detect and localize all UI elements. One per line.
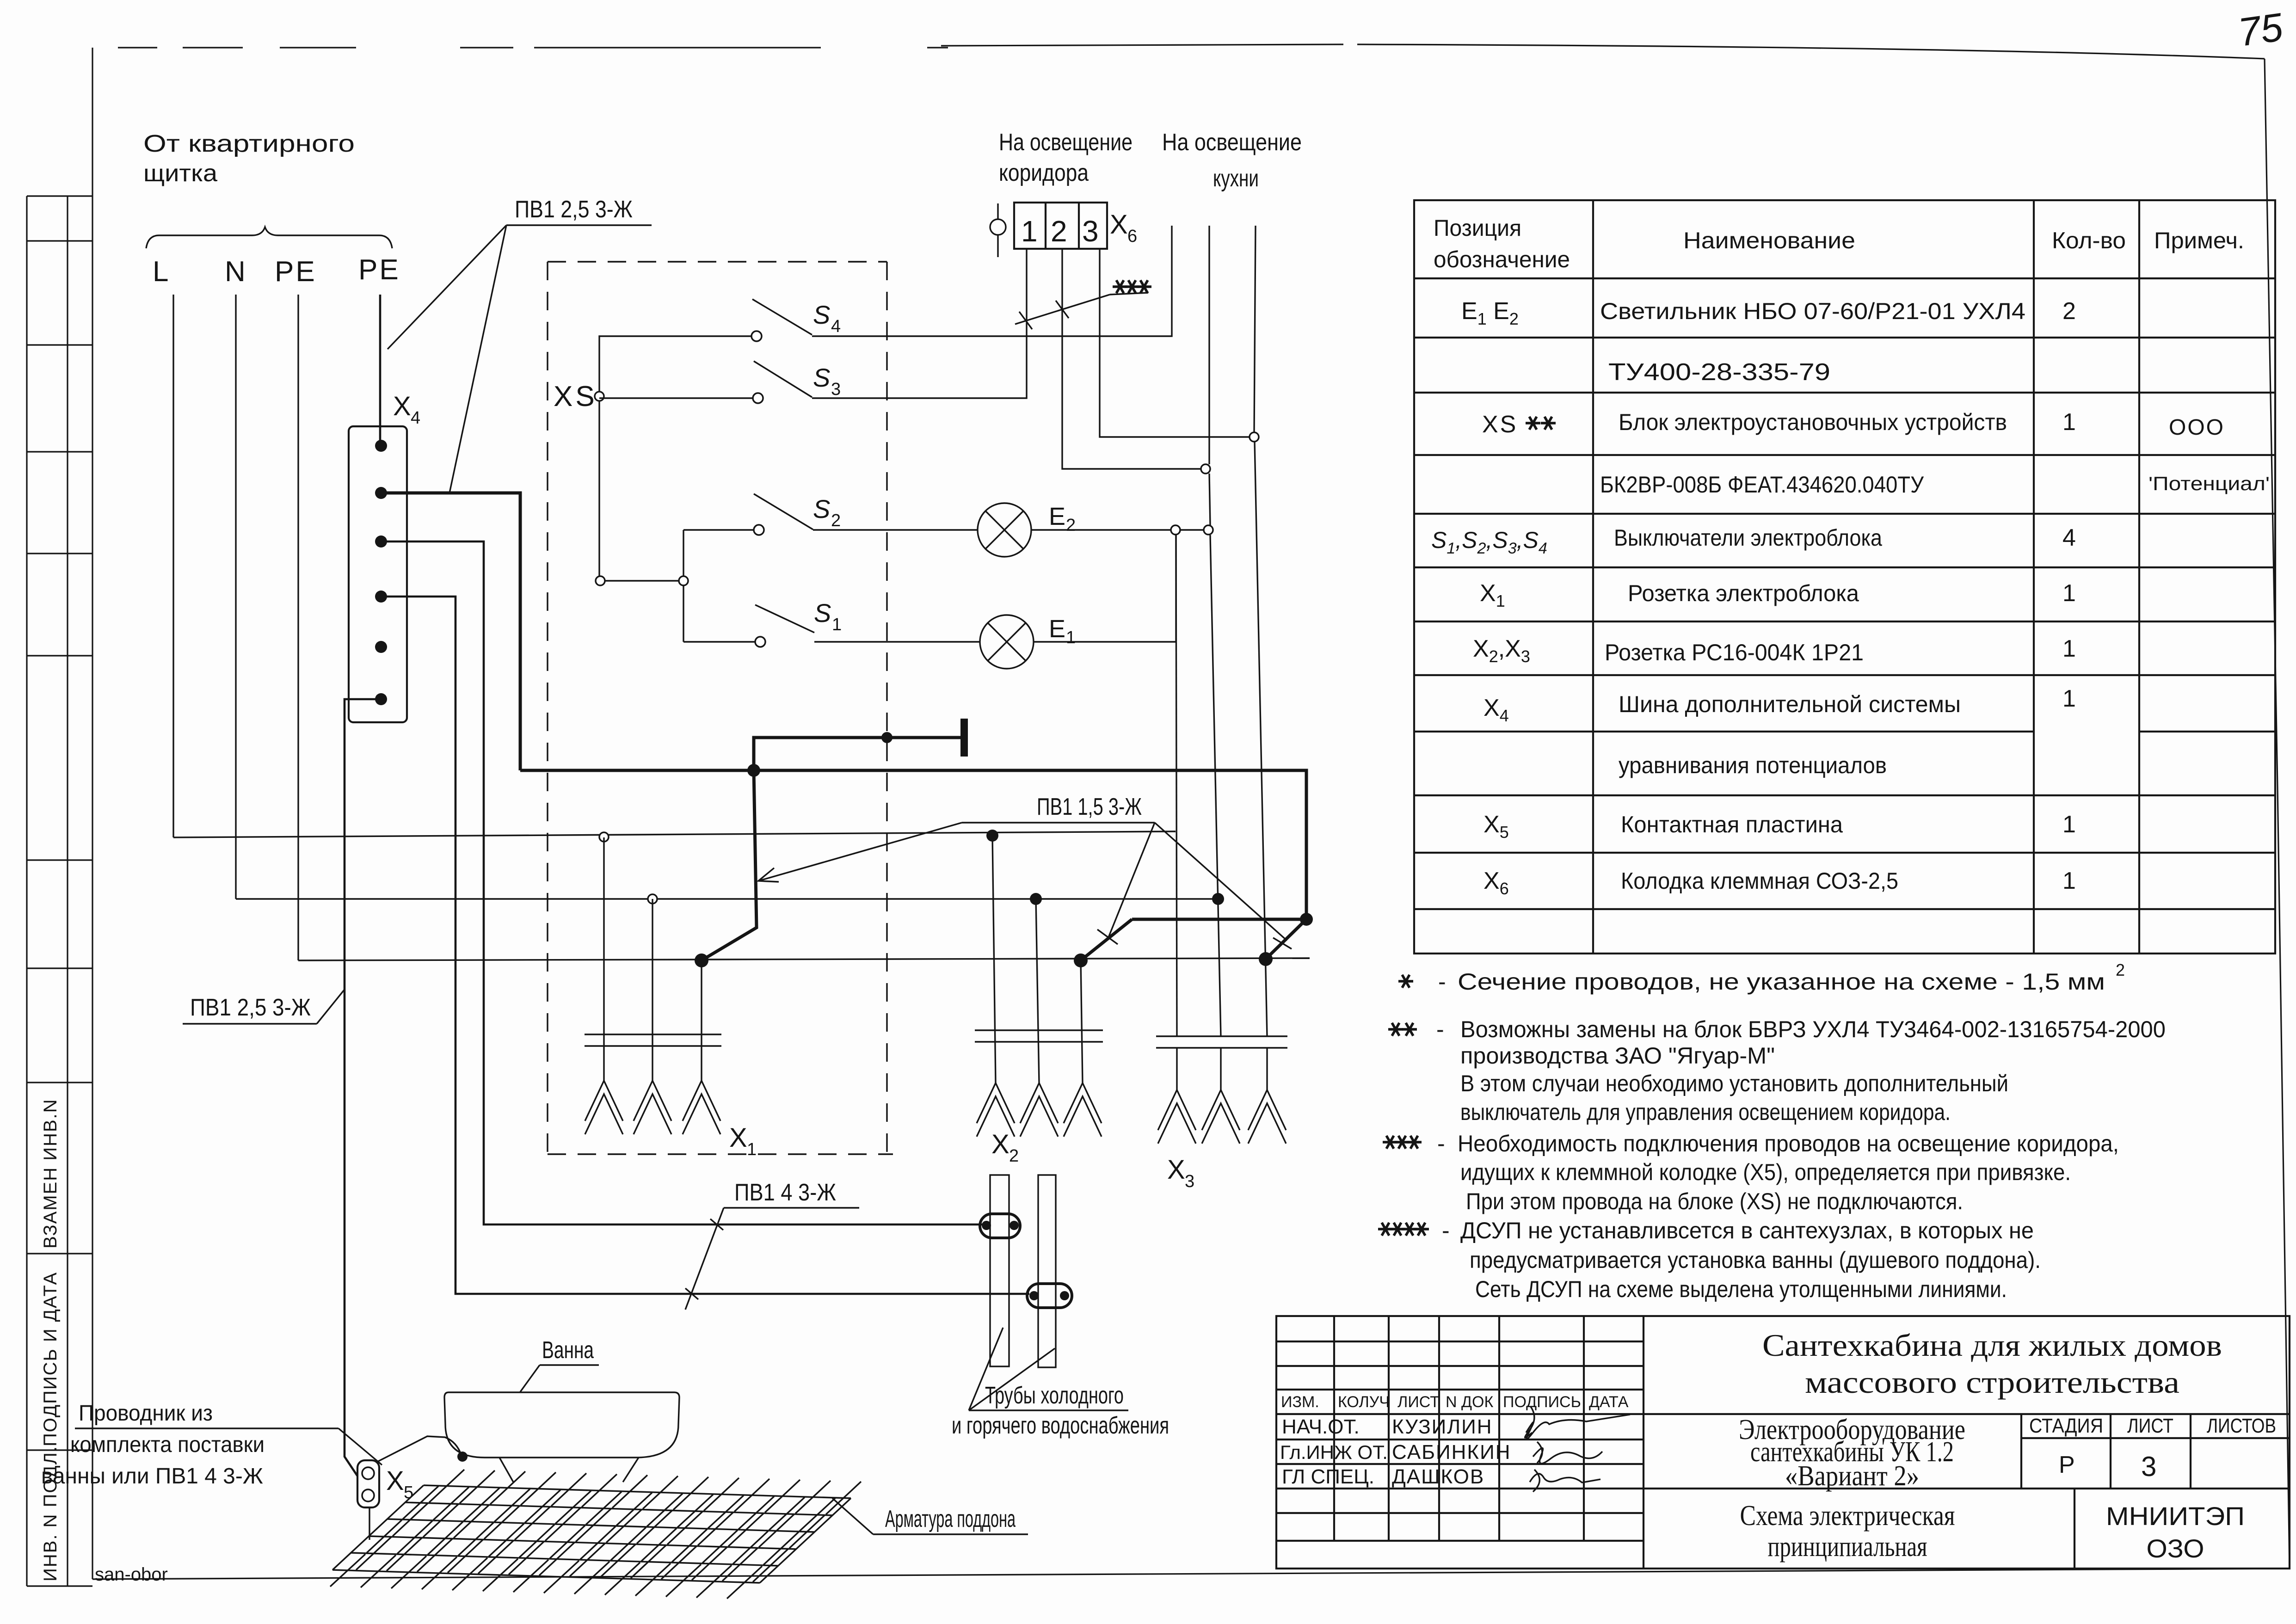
svg-text:Розетка РС16-004К 1Р21: Розетка РС16-004К 1Р21 — [1605, 640, 1864, 665]
note *** необходимость подключения — [1383, 1136, 1397, 1149]
connection circle E-line / X3 riser — [1171, 525, 1180, 535]
svg-text:N: N — [225, 256, 246, 288]
wire E2 output to neutral riser — [1031, 529, 1212, 530]
potential equalization bar — [960, 719, 968, 757]
svg-text:Сеть ДСУП на схеме выделен: Сеть ДСУП на схеме выделена утолщенными … — [1475, 1276, 2007, 1302]
svg-text:1: 1 — [2062, 685, 2076, 712]
svg-text:Р: Р — [2059, 1452, 2075, 1478]
wire PE horizontal — [298, 958, 1310, 960]
leader to X4 dot2 wire — [449, 225, 506, 493]
svg-text:КУЗИЛИН: КУЗИЛИН — [1392, 1415, 1493, 1438]
svg-text:2: 2 — [1009, 1146, 1019, 1166]
block XS dashed outline — [548, 262, 893, 1154]
drawing frame: top border (dashed scan segments) — [118, 44, 2265, 59]
svg-text:ИЗМ.: ИЗМ. — [1281, 1393, 1319, 1411]
svg-text:L: L — [153, 256, 168, 288]
junction dot L / X2-1 — [986, 830, 998, 842]
svg-text:Е: Е — [1049, 615, 1065, 643]
svg-text:кухни: кухни — [1213, 165, 1259, 192]
svg-text:Колодка клеммная СОЗ-2,5: Колодка клеммная СОЗ-2,5 — [1621, 868, 1898, 894]
svg-text:ВЗАМЕН ИНВ.N: ВЗАМЕН ИНВ.N — [40, 1098, 61, 1249]
junction dot PE / X2-3 — [1074, 953, 1088, 967]
socket X2 body bars — [975, 1030, 1103, 1042]
svg-text:Примеч.: Примеч. — [2154, 228, 2244, 253]
svg-text:1: 1 — [2062, 635, 2076, 662]
leader to pipe 2 — [969, 1348, 1055, 1410]
svg-text:На освещение: На освещение — [999, 129, 1133, 156]
lamp E1 — [980, 615, 1034, 669]
svg-text:идущих к клеммной колодке: идущих к клеммной колодке (Х5), определя… — [1460, 1159, 2071, 1185]
svg-text:ДАТА: ДАТА — [1589, 1393, 1629, 1411]
socket X1 riser 2 — [652, 899, 653, 1081]
switch S1 contact — [755, 637, 765, 647]
terminal block X6 — [1014, 203, 1107, 249]
svg-text:1: 1 — [832, 615, 842, 634]
svg-text:3: 3 — [1082, 215, 1099, 248]
clamp on pipe 1 — [980, 1214, 1020, 1238]
svg-text:-: - — [1437, 1131, 1445, 1156]
junction dot N / kitchen riser — [1212, 893, 1224, 905]
svg-text:S: S — [813, 300, 830, 329]
svg-text:«Вариант 2»: «Вариант 2» — [1785, 1460, 1919, 1492]
svg-text:щитка: щитка — [143, 160, 217, 187]
svg-text:X: X — [386, 1466, 404, 1496]
svg-text:Проводник из: Проводник из — [79, 1401, 213, 1426]
svg-text:-: - — [1442, 1218, 1450, 1243]
svg-text:ЛИСТ: ЛИСТ — [1397, 1393, 1440, 1411]
underline of top ПВ1 label — [506, 224, 652, 226]
socket X1 body bars — [585, 1034, 721, 1046]
svg-text:Позиция: Позиция — [1434, 215, 1521, 241]
wire PE (ПВ1 2,5 3-Ж) vertical to X4 — [379, 295, 382, 446]
switch S4 contact — [751, 331, 762, 341]
socket X1 prong 1 — [585, 1081, 623, 1134]
wire E1 output up to E2 line — [1034, 535, 1176, 642]
svg-text:Гл.ИНЖ ОТ.: Гл.ИНЖ ОТ. — [1280, 1441, 1388, 1463]
svg-text:ЛИСТОВ: ЛИСТОВ — [2207, 1415, 2276, 1437]
underline of Проводник label — [75, 1427, 339, 1429]
DSUP drop to X1 area — [702, 770, 757, 960]
svg-text:уравнивания потенциалов: уравнивания потенциалов — [1619, 752, 1887, 778]
signatures (squiggles) — [1525, 1407, 1630, 1492]
svg-text:1: 1 — [1066, 628, 1076, 647]
svg-text:ГЛ СПЕЦ.: ГЛ СПЕЦ. — [1282, 1465, 1374, 1488]
svg-text:Сечение проводов, не указан: Сечение проводов, не указанное на схеме … — [1458, 969, 2105, 995]
svg-text:X: X — [991, 1129, 1010, 1159]
svg-text:ПОДПИСЬ И ДАТА: ПОДПИСЬ И ДАТА — [40, 1272, 61, 1446]
X5 tail to grid — [369, 1507, 370, 1540]
svg-text:3: 3 — [831, 380, 841, 399]
drawing frame: right border — [2265, 59, 2290, 1569]
svg-text:X: X — [1167, 1155, 1185, 1185]
X4 terminal dot 1 — [375, 440, 387, 452]
socket X3 prong 1 — [1158, 1090, 1196, 1144]
svg-text:ПВ1 1,5 3-Ж: ПВ1 1,5 3-Ж — [1037, 794, 1142, 820]
bonding conductor X5 to bath — [378, 1436, 462, 1461]
svg-text:коридора: коридора — [999, 160, 1089, 186]
svg-text:-: - — [1438, 969, 1446, 995]
svg-text:2: 2 — [831, 511, 841, 530]
underline of ПБ1 4 label — [724, 1207, 859, 1208]
kitchen riser A (neutral) — [1208, 226, 1210, 464]
rail branch circle — [679, 576, 688, 585]
svg-text:2: 2 — [1066, 516, 1076, 535]
svg-text:2: 2 — [2062, 298, 2076, 325]
junction dot DSUP — [747, 764, 760, 777]
svg-text:НАЧ.ОТ.: НАЧ.ОТ. — [1282, 1415, 1360, 1438]
svg-text:1: 1 — [747, 1140, 757, 1159]
leader to DSUP diagonal left — [1097, 823, 1155, 944]
socket X3 body bars — [1156, 1036, 1287, 1048]
svg-text:Трубы холодного: Трубы холодного — [985, 1382, 1124, 1409]
svg-text:X: X — [1110, 209, 1128, 240]
underline of Трубы label — [969, 1409, 1128, 1411]
floor grid (Арматура поддона) — [330, 1470, 861, 1599]
corridor lamp symbol — [990, 203, 1006, 257]
svg-text:Схема электрическая: Схема электрическая — [1740, 1500, 1955, 1532]
svg-text:Розетка электроблока: Розетка электроблока — [1628, 580, 1859, 606]
svg-text:75: 75 — [2235, 5, 2286, 55]
junction dot N / X2-2 — [1030, 893, 1042, 905]
parts table — [1414, 200, 2275, 953]
svg-text:X: X — [393, 391, 411, 421]
svg-text:ЛИСТ: ЛИСТ — [2127, 1415, 2173, 1437]
svg-text:ПОДПИСЬ: ПОДПИСЬ — [1503, 1393, 1581, 1411]
bathtub right leg — [623, 1458, 639, 1482]
socket X1 prong 3 — [683, 1081, 720, 1134]
note * сечение проводов — [1398, 975, 1413, 988]
leader to PE wire — [388, 225, 506, 349]
bathtub left leg — [499, 1458, 513, 1482]
leader to bonding wire — [339, 1428, 382, 1465]
svg-text:3: 3 — [1185, 1172, 1194, 1191]
underline of Ванна label — [540, 1364, 599, 1366]
svg-text:1: 1 — [1021, 215, 1038, 248]
clamp on pipe 2 — [1027, 1284, 1072, 1308]
svg-text:PE: PE — [275, 256, 317, 288]
wire rail to S3 — [599, 397, 758, 399]
bathtub Ванна — [444, 1392, 679, 1458]
svg-text:предусматривается установка: предусматривается установка ванны (душев… — [1470, 1247, 2041, 1273]
connection circle E-line / neutral riser — [1204, 525, 1213, 535]
wire L horizontal — [173, 831, 1176, 837]
svg-text:Необходимость подключения пр: Необходимость подключения проводов на ос… — [1458, 1131, 2119, 1156]
junction dot PE / DSUP / X1-3 — [695, 953, 708, 967]
asterisks *** — [1113, 280, 1127, 293]
svg-text:ООО: ООО — [2169, 415, 2225, 440]
svg-text:Контактная пластина: Контактная пластина — [1621, 812, 1843, 837]
socket X2 prong 2 — [1020, 1083, 1058, 1137]
kitchen riser B — [1254, 226, 1256, 432]
svg-text:ТУ400-28-335-79: ТУ400-28-335-79 — [1608, 359, 1830, 386]
svg-text:Кол-во: Кол-во — [2052, 228, 2126, 253]
underline of lower ПВ1 label — [183, 1023, 317, 1024]
socket X3 prong 2 — [1202, 1090, 1240, 1144]
svg-text:Шина дополнительной системы: Шина дополнительной системы — [1619, 691, 1961, 717]
svg-text:Арматура поддона: Арматура поддона — [885, 1506, 1016, 1532]
connection circle X6-3 — [1250, 432, 1259, 442]
leader to DSUP diagonal right — [1155, 823, 1292, 949]
junction dot DSUP right — [1300, 913, 1313, 926]
svg-text:-: - — [1436, 1016, 1444, 1042]
switch S2 blade — [754, 494, 813, 529]
svg-text:производства ЗАО "Ягуар-М": производства ЗАО "Ягуар-М" — [1460, 1043, 1775, 1069]
wire X6-2 down to neutral riser — [1062, 249, 1204, 469]
switch S4 blade — [752, 299, 812, 335]
svg-text:ДАШКОВ: ДАШКОВ — [1392, 1465, 1484, 1488]
junction dot PE / X3-3 — [1259, 952, 1273, 966]
wire PE vertical — [297, 295, 299, 960]
leader to pipe 1 — [969, 1328, 1003, 1410]
X5 holes — [362, 1467, 374, 1479]
svg-text:При этом провода на блоке: При этом провода на блоке (ХS) не подклю… — [1466, 1188, 1963, 1214]
svg-text:СТАДИЯ: СТАДИЯ — [2029, 1415, 2103, 1437]
connection circle L / X1-1 — [599, 832, 609, 842]
svg-text:'Потенциал': 'Потенциал' — [2148, 473, 2270, 494]
svg-text:6: 6 — [1127, 227, 1137, 246]
svg-text:ОЗО: ОЗО — [2147, 1534, 2204, 1563]
svg-text:БК2ВР-008Б ФЕАТ.434620.040ТУ: БК2ВР-008Б ФЕАТ.434620.040ТУ — [1600, 472, 1924, 498]
contact plate X5 — [357, 1460, 379, 1507]
wire N vertical — [235, 295, 236, 899]
svg-text:ПВ1 4 3-Ж: ПВ1 4 3-Ж — [734, 1179, 836, 1206]
leader arrow to DSUP drop — [758, 823, 962, 882]
drawing frame: left border — [92, 48, 93, 1579]
svg-text:Ванна: Ванна — [542, 1337, 594, 1364]
wire L vertical — [172, 295, 174, 837]
leader to grid — [832, 1498, 873, 1534]
rail branch circle lower left — [596, 576, 605, 585]
socket X1 prong 2 — [634, 1081, 671, 1134]
wire S1 output to lamp E1 — [814, 641, 980, 642]
svg-text:X: X — [729, 1123, 747, 1153]
connection circle N / X1-2 — [648, 894, 657, 904]
svg-text:Е: Е — [1049, 503, 1065, 530]
svg-text:XS: XS — [554, 381, 597, 412]
svg-text:1: 1 — [2062, 811, 2076, 838]
socket X2 prong 3 — [1064, 1083, 1102, 1137]
wire S2 output to lamp E2 — [813, 529, 978, 530]
socket X3 prong 3 — [1248, 1090, 1286, 1144]
clamp 2 contact dots — [1029, 1291, 1039, 1300]
drawing frame: bottom border — [92, 1569, 2290, 1579]
X4 terminal dot 3 — [375, 535, 387, 547]
svg-text:От квартирного: От квартирного — [143, 130, 355, 157]
svg-text:Выключатели электроблока: Выключатели электроблока — [1614, 525, 1882, 551]
svg-text:2: 2 — [2116, 960, 2125, 979]
svg-text:Сантехкабина для жилых домов: Сантехкабина для жилых домов — [1762, 1328, 2222, 1363]
svg-text:S: S — [813, 363, 830, 392]
left column boxes of frame — [27, 196, 92, 1586]
disconnect slash marker (***) — [1015, 293, 1148, 329]
svg-text:Возможны замены на блок БВ: Возможны замены на блок БВРЗ УХЛ4 ТУ3464… — [1460, 1016, 2166, 1042]
connection circle X6-2 — [1201, 464, 1210, 474]
DSUP thick main line — [520, 770, 1306, 918]
note ** возможны замены — [1388, 1023, 1403, 1036]
svg-text:комплекта поставки: комплекта поставки — [70, 1433, 265, 1457]
XS rail terminal circle — [595, 392, 604, 401]
svg-text:МНИИТЭП: МНИИТЭП — [2106, 1501, 2245, 1531]
svg-text:ПВ1 2,5 3-Ж: ПВ1 2,5 3-Ж — [515, 196, 633, 223]
clamp 1 contact dots — [982, 1221, 991, 1230]
X4 terminal dot 2 — [375, 487, 387, 499]
brace over feed terminals — [146, 227, 392, 248]
lamp E2 — [978, 503, 1031, 557]
svg-text:S: S — [814, 598, 831, 627]
underline of ПВ1 1,5 label — [962, 822, 1155, 823]
svg-text:На освещение: На освещение — [1162, 129, 1302, 156]
svg-text:Наименование: Наименование — [1683, 228, 1855, 253]
wire X6-3 down right to kitchen riser — [1100, 249, 1251, 437]
wire from X4 dot3 (thick, to pipe clamp 1) — [381, 541, 982, 1224]
wire from X4 dot2 (thick, to DSUP) — [381, 493, 520, 770]
switch S3 blade — [754, 361, 812, 397]
switch S2 contact — [754, 525, 764, 535]
svg-text:1: 1 — [2062, 409, 2076, 436]
wire from X4 dot6 (thick, ПВ1 2,5 to X5) — [345, 699, 381, 1476]
svg-text:2: 2 — [1051, 215, 1067, 248]
socket X3 riser extensions — [1177, 1048, 1267, 1090]
switch S3 contact — [753, 393, 763, 403]
socket X1 riser 3 — [701, 960, 702, 1081]
pipe 2 (hot water) — [1038, 1175, 1056, 1367]
leader to bathtub — [520, 1365, 540, 1392]
svg-text:Блок электроустановочных устро: Блок электроустановочных устройств — [1619, 409, 2007, 435]
leader to vertical wire — [317, 990, 344, 1024]
svg-text:XS: XS — [1482, 411, 1518, 438]
socket X2 prong 1 — [977, 1083, 1015, 1137]
svg-text:КОЛУЧ: КОЛУЧ — [1338, 1393, 1390, 1411]
svg-text:4: 4 — [411, 408, 420, 428]
svg-text:В этом случаи необходимо у: В этом случаи необходимо установить допо… — [1460, 1070, 2008, 1096]
svg-text:принципиальная: принципиальная — [1768, 1531, 1927, 1562]
svg-text:PE: PE — [358, 254, 400, 286]
svg-text:ПВ1 2,5 3-Ж: ПВ1 2,5 3-Ж — [190, 994, 311, 1021]
svg-text:4: 4 — [2062, 524, 2076, 551]
bonding dot on bath — [457, 1452, 468, 1462]
svg-text:ванны или ПВ1 4 3-Ж: ванны или ПВ1 4 3-Ж — [41, 1464, 263, 1489]
socket X2 riser 3 — [1081, 960, 1083, 1083]
wire N horizontal — [236, 898, 1218, 899]
X4 terminal dot 6 — [375, 693, 387, 705]
svg-text:и горячего водоснабжения: и горячего водоснабжения — [952, 1412, 1169, 1439]
svg-text:массового строительства: массового строительства — [1805, 1365, 2179, 1400]
svg-text:4: 4 — [831, 317, 841, 336]
svg-text:ДСУП не устанавливсется в: ДСУП не устанавливсется в сантехузлах, в… — [1460, 1218, 2034, 1243]
svg-text:САБИНКИН: САБИНКИН — [1392, 1441, 1511, 1464]
bus X4 (ДСУП) outline — [349, 426, 407, 722]
DSUP branch to potential bar — [754, 738, 964, 770]
title block — [1276, 1316, 2290, 1569]
junction dot on potential branch — [881, 732, 893, 743]
XS input rail — [599, 336, 760, 642]
switch S1 blade — [755, 605, 814, 633]
socket X2 riser 2 — [1036, 899, 1039, 1083]
svg-text:обозначение: обозначение — [1434, 246, 1570, 272]
DSUP diagonal to X2-3 — [1081, 919, 1306, 960]
X4 terminal dot 5 — [375, 641, 387, 653]
leader crossing both clamp wires — [685, 1208, 724, 1310]
svg-text:N ДОК: N ДОК — [1446, 1393, 1493, 1411]
svg-text:3: 3 — [2141, 1451, 2156, 1482]
DSUP diagonal to X3-3 — [1266, 919, 1306, 959]
svg-text:S: S — [813, 494, 830, 523]
socket X1 riser 1 — [603, 837, 604, 1081]
svg-text:1: 1 — [2062, 867, 2076, 894]
svg-text:Светильник НБО 07-60/Р21-01 УХ: Светильник НБО 07-60/Р21-01 УХЛ4 — [1600, 298, 2025, 324]
svg-text:san-obor: san-obor — [95, 1564, 168, 1585]
underline of Арматура label — [873, 1533, 1028, 1535]
X4 terminal dot 4 — [375, 591, 387, 603]
wire S4 output to kitchen riser — [812, 226, 1172, 336]
wire from X4 dot4 (thick, to pipe clamp 2) — [381, 597, 1029, 1294]
wire S3 output to X6-1 — [812, 249, 1027, 398]
svg-text:1: 1 — [2062, 580, 2076, 607]
socket X2 riser 1 — [992, 836, 996, 1083]
pipe 1 (cold water) — [990, 1175, 1009, 1366]
X3 riser from lamp return — [1176, 535, 1177, 1036]
svg-text:выключатель для управления: выключатель для управления освещением ко… — [1460, 1099, 1951, 1125]
